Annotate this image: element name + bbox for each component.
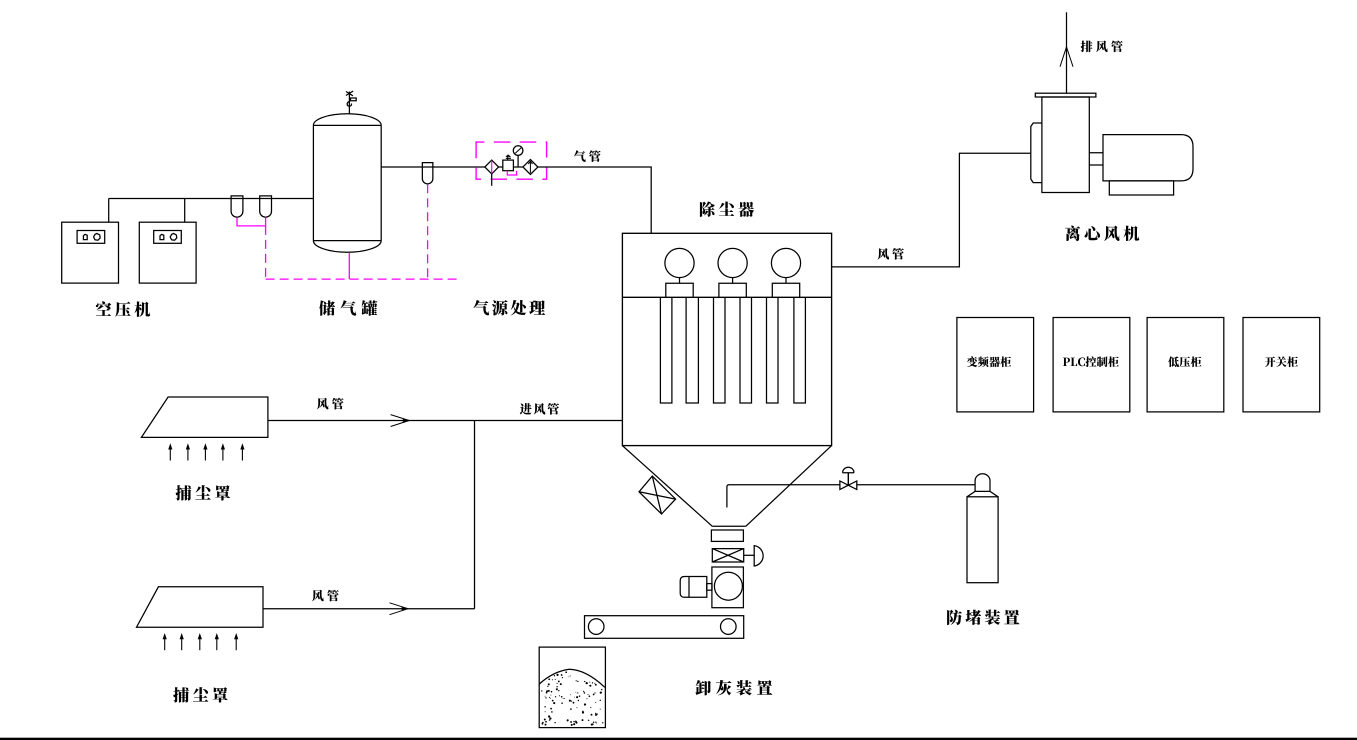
- airlock drive half-disc: [754, 545, 763, 566]
- pulse valve 1 stem: [679, 278, 681, 284]
- air line from tank to treatment unit: [381, 166, 485, 168]
- hopper neck flange: [711, 530, 743, 541]
- dust hood 2: [137, 587, 264, 627]
- magenta dashed drain from filter 3: [427, 184, 429, 279]
- conveyor wheel right: [721, 619, 737, 635]
- wire from compressor 2 to air bus: [184, 199, 186, 223]
- safety valve hook: [347, 102, 351, 107]
- cabinet 3: 低压柜: [1147, 318, 1224, 412]
- ash speckles: [541, 671, 603, 726]
- riser joining duct 2 to duct 1: [474, 421, 476, 609]
- air compressor 2 control panel: [154, 231, 182, 244]
- vibrator diamond on hopper: [639, 476, 676, 514]
- magenta dashed drain header: [266, 278, 457, 280]
- label 捕尘罩 hood 1: [176, 485, 230, 500]
- compressor 1 panel knob: [94, 233, 101, 240]
- compressor 1 panel button square: [83, 234, 87, 239]
- arrow tip duct 1: [403, 418, 409, 422]
- dust collector clean/dirty divider: [622, 296, 831, 298]
- fan-motor shaft: [1089, 153, 1103, 165]
- air compressor 1 control panel: [77, 231, 105, 244]
- safety valve on tank top: [346, 91, 356, 114]
- label 开关柜: [1265, 356, 1298, 367]
- label PLC控制柜: [1063, 356, 1119, 367]
- gas bottle shoulder: [967, 491, 998, 496]
- cabinet 4: 开关柜: [1243, 318, 1320, 412]
- discharge motor: [680, 577, 707, 598]
- pulse valve 2: [718, 248, 747, 277]
- gas bottle body: [967, 497, 998, 583]
- filter 1 magenta drain mark: [491, 161, 493, 174]
- dust collector shell: [622, 233, 831, 445]
- screw drive housing: [712, 567, 744, 608]
- label 低压柜: [1168, 356, 1201, 367]
- label 排风管 (exhaust pipe): [1081, 40, 1123, 52]
- filter bag 3: [714, 297, 726, 403]
- pipe from valve to nitrogen bottle: [857, 484, 975, 486]
- pressure gauge: [513, 146, 523, 156]
- wire between components: [513, 166, 523, 168]
- hopper right slope: [746, 446, 832, 527]
- bottom border bar: [0, 738, 1357, 740]
- valve stem: [847, 473, 849, 486]
- filter bag 6: [794, 297, 806, 403]
- flow arrow on duct 2: [390, 603, 409, 615]
- duct collector to fan: [832, 153, 1031, 267]
- regulator box: [503, 160, 514, 171]
- label 防堵装置 (anti-blocking device): [947, 610, 1019, 625]
- label 气源处理 (air treatment): [473, 300, 545, 316]
- pulse valve 1: [665, 248, 694, 277]
- conveyor wheel left: [588, 619, 604, 635]
- compressor 2 panel button square: [160, 234, 164, 239]
- motor shaft flange: [707, 584, 712, 591]
- gauge needle: [515, 148, 521, 154]
- air lance pipe in hopper: [727, 485, 840, 508]
- duct from hood 1: [268, 420, 623, 422]
- airlock shaft: [744, 554, 755, 556]
- duct from hood 2: [263, 608, 475, 610]
- hood 2 suction arrows: [163, 633, 239, 650]
- pulse valve 1 blowpipe bracket: [666, 283, 693, 297]
- screw conveyor trough: [585, 616, 744, 639]
- fan outlet flange: [1035, 93, 1096, 97]
- exhaust stack: [1066, 12, 1068, 93]
- arrow tip duct 2: [402, 607, 408, 611]
- fan casing: [1042, 97, 1089, 193]
- gas bottle neck: [975, 474, 990, 492]
- filter bag 4: [740, 297, 752, 403]
- inline filter 2 on air bus: [260, 196, 272, 217]
- treatment filter diamond 1: [485, 160, 499, 174]
- compressor 2 panel knob: [170, 233, 177, 240]
- label 除尘器 (dust collector): [700, 201, 754, 216]
- regulator knob mark: [506, 155, 511, 160]
- air compressor 1 body: [62, 222, 119, 283]
- label 卸灰装置 (ash unloading device): [695, 680, 772, 695]
- filter bag 1: [660, 297, 672, 403]
- magenta tank drain stem: [348, 253, 350, 280]
- label 储气罐 (storage tank): [319, 300, 377, 315]
- ash pile surface: [539, 669, 605, 687]
- fan inlet cone: [1031, 123, 1042, 183]
- cabinet 2: PLC控制柜: [1053, 318, 1130, 412]
- pulse valve 3: [771, 248, 800, 277]
- hopper neck: [712, 525, 746, 527]
- label 捕尘罩 hood 2: [173, 687, 227, 702]
- wire between components: [499, 166, 503, 168]
- wire from compressor 1 to air bus: [108, 199, 110, 223]
- dust hood 1: [141, 397, 268, 437]
- flow arrow on duct 1: [391, 415, 410, 427]
- lubricator arrow mark: [528, 161, 532, 173]
- storage tank bottom cap: [313, 241, 381, 253]
- hopper left slope: [622, 446, 712, 527]
- fan motor: [1103, 135, 1193, 181]
- air treatment magenta dashed enclosure: [476, 142, 546, 179]
- ash bin: [539, 647, 605, 728]
- storage tank body: [313, 125, 381, 240]
- cabinet 1: 变频器柜: [957, 318, 1034, 412]
- pulse valve 3 stem: [785, 278, 787, 284]
- label 气管 (air pipe): [574, 150, 601, 162]
- storage tank top cap: [313, 114, 381, 126]
- drive wheel: [714, 572, 742, 600]
- inline filter 3 on air line: [422, 163, 433, 184]
- magenta dashed drain line down from filter 2: [265, 226, 267, 279]
- regulator magenta bypass: [507, 171, 516, 175]
- air pipe from treatment to dust collector: [538, 167, 651, 233]
- pulse valve 2 stem: [732, 278, 734, 284]
- label 风管 (fan duct): [877, 248, 903, 260]
- hood 1 suction arrows: [168, 443, 244, 460]
- magenta drain link under filters: [237, 217, 266, 226]
- label 风管 duct 1: [317, 398, 344, 410]
- valve handle: [843, 467, 854, 473]
- label 风管 duct 2: [312, 590, 339, 602]
- exhaust arrow: [1060, 47, 1073, 67]
- air compressor 2 body: [139, 222, 196, 283]
- pulse valve 3 blowpipe bracket: [772, 283, 799, 297]
- rotary airlock valve: [712, 549, 743, 562]
- filter bag 2: [686, 297, 698, 403]
- pulse valve 2 blowpipe bracket: [719, 283, 746, 297]
- ball valve: [840, 481, 857, 490]
- filter bag 5: [767, 297, 779, 403]
- label 变频器柜: [967, 356, 1011, 367]
- label 进风管 (inlet duct): [520, 403, 559, 415]
- label 空压机 (air compressor): [96, 301, 150, 317]
- air bus wire to tank: [109, 198, 314, 200]
- pressure gauge stem: [517, 155, 519, 167]
- inline filter 1 on air bus: [231, 196, 243, 217]
- treatment lubricator diamond 2: [523, 160, 538, 175]
- label 离心风机 (centrifugal fan): [1065, 226, 1139, 242]
- motor base: [1109, 181, 1173, 195]
- filter 1 drain stem: [491, 174, 493, 186]
